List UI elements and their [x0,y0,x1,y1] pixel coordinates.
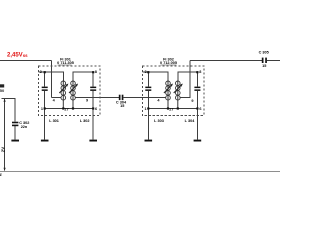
wire bottom rail Fi301 [45,108,93,110]
node pin3 Fi302 [147,71,149,73]
wire tap Fi301 pin4 [52,96,61,98]
wire C304 to Fi302 pin4 tap [123,96,165,98]
capacitor inside Fi302 left [145,87,151,91]
svg-text:N: N [0,172,2,177]
wire top-left input [0,59,52,61]
svg-text:22n: 22n [21,125,28,129]
ground (Fi301 pin1) [41,140,49,142]
node pin6 Fi302 [196,107,198,109]
filter Fi301 dashed box [39,66,101,116]
ground (Fi302 pin6) [194,140,202,142]
inductor L304 (secondary coil) [176,81,181,109]
svg-text:1: 1 [41,107,43,111]
capacitor inside Fi301 left [42,87,48,91]
svg-text:3: 3 [144,70,146,74]
capacitor C302 [12,121,29,129]
wire top-right output [190,59,262,61]
svg-text:1: 1 [144,107,146,111]
node pin7 Fi302 [177,107,179,109]
svg-text:L 303: L 303 [154,119,164,123]
svg-text:L 301: L 301 [49,119,59,123]
wire chassis gray line [0,171,280,173]
node pin8 Fi302 [196,71,198,73]
wire pin3 stub [39,71,45,73]
wire cap1 top [44,72,46,86]
filter Fi302 dashed box [142,66,204,116]
svg-text:15: 15 [262,64,266,68]
svg-text:L 302: L 302 [80,119,90,123]
wire pin3 to primary top Fi302 [148,72,168,81]
wire pin6 to ground [92,109,94,140]
wire pin3 stub Fi302 [142,71,148,73]
measure arrow 2V [0,99,5,171]
wire cap4 bottom [196,91,198,109]
capacitor C305 [259,51,269,68]
inductor L301 (primary coil) [61,81,66,109]
label Fi302 part-number underline [161,64,177,66]
wire C302 to ground [14,126,16,139]
node pin3 Fi301 [44,71,46,73]
wire cap2 top [92,72,94,86]
svg-text:2V: 2V [0,147,5,152]
svg-text:0 711.305: 0 711.305 [57,61,74,65]
svg-text:L 304: L 304 [185,119,196,123]
wire secondary top to pin8 [73,72,93,81]
svg-text:C 305: C 305 [259,51,269,55]
label Fi301 [57,58,74,66]
label Fi301 part-number underline [58,64,72,66]
wire pin3 to primary top [45,72,64,81]
capacitor inside Fi301 right [90,87,96,91]
wire tap Fi301 pin9 to C304 [76,96,119,98]
wire pin1 Fi302 to ground [147,109,149,140]
wire pin6 Fi302 to ground [196,109,198,140]
svg-text:15: 15 [120,104,124,108]
wire cap4 top [196,72,198,86]
wire tap Fi302 pin9 riser [180,60,190,97]
node pin8 Fi301 [92,71,94,73]
svg-text:3: 3 [40,70,42,74]
svg-text:7: 7 [171,107,173,111]
ground (Fi302 pin1) [145,140,153,142]
wire bottom rail Fi302 [148,108,197,110]
svg-text:2,45Vss: 2,45Vss [7,53,28,59]
wire after C305 to edge [267,59,280,61]
ground (C302) [11,140,19,142]
node pin6 Fi301 [92,107,94,109]
wire cap3 top [147,72,149,86]
tuning arrow L302 [69,84,78,94]
node pin1 Fi302 [147,107,149,109]
wire pin1 to ground [44,109,46,140]
svg-text:7: 7 [67,107,69,111]
ground (Fi301 pin6) [89,140,97,142]
wire cap3 bottom [147,91,149,109]
svg-text:8: 8 [199,70,201,74]
wire cap1 bottom [44,91,46,109]
inductor L303 (primary coil) [166,81,171,109]
wire secondary top to pin8 Fi302 [178,72,198,81]
svg-text:9: 9 [191,99,193,103]
tuning arrow L303 [164,84,173,94]
svg-text:8: 8 [95,70,97,74]
svg-text:6: 6 [95,107,97,111]
label left-edge fragment [0,84,5,93]
tuning arrow L301 [59,84,68,94]
svg-text:6: 6 [199,107,201,111]
node pin1 Fi301 [44,107,46,109]
node pin2 Fi301 [62,107,64,109]
svg-text:0 712.005: 0 712.005 [160,61,177,65]
capacitor C304 [116,95,127,109]
wire left node to C302 [2,99,16,122]
wire riser into Fi301 tap [51,60,53,97]
inductor L302 (secondary coil) [71,81,76,109]
capacitor inside Fi302 right [194,87,200,91]
label Fi302 [160,58,177,66]
svg-text:9: 9 [86,99,88,103]
node pin2 Fi302 [167,107,169,109]
node pin7 Fi301 [72,107,74,109]
tuning arrow L304 [174,84,183,94]
wire cap2 bottom [92,91,94,109]
